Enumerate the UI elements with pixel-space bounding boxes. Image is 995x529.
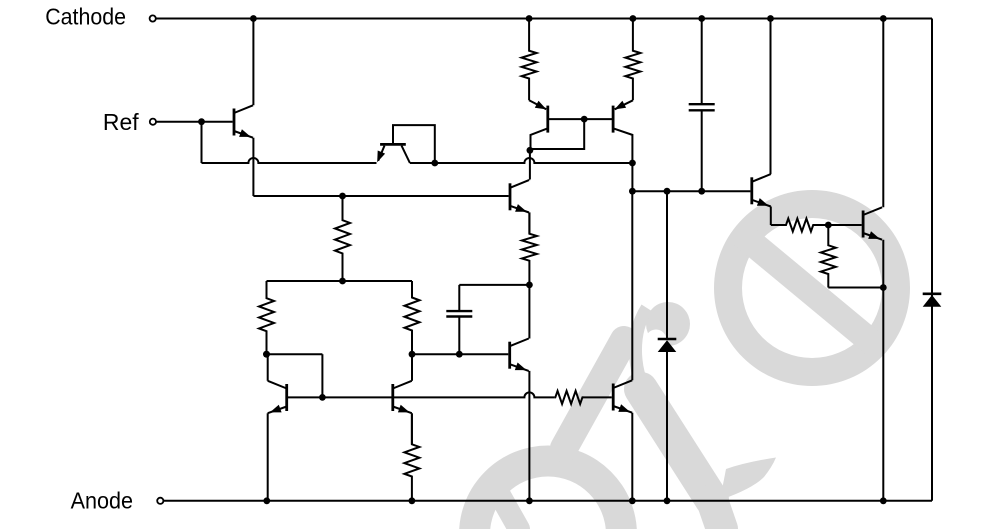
transistor Q1 collector lead — [234, 105, 253, 113]
transistor Q7 emitter arrow — [270, 405, 282, 413]
transistor Q3 collector lead — [531, 128, 548, 150]
resistor R10 — [771, 219, 829, 232]
transistor Q3 emitter arrow — [535, 101, 547, 110]
wire Q7 collector up — [267, 354, 269, 381]
wire Q9 collector up — [631, 191, 633, 380]
transistor Q3 emitter lead — [529, 100, 546, 109]
node top rail x=770.5 — [767, 15, 774, 22]
wire Q10 collector up — [770, 19, 772, 175]
wire Q7 emitter down — [267, 413, 269, 501]
node R2 bottom — [263, 351, 270, 358]
watermark accent stroke — [564, 340, 624, 448]
diode D2 triangle — [923, 295, 942, 307]
wire A right segment — [410, 158, 633, 163]
transistor Q5 bar — [509, 183, 512, 210]
capacitor C1 bottom plate — [689, 109, 715, 111]
node top rail x=529.1 — [526, 15, 533, 22]
node wire F tie — [319, 394, 326, 401]
node top rail x=701.7 — [698, 15, 705, 22]
diode D1 triangle — [658, 340, 677, 352]
resistor R3 — [405, 281, 420, 354]
node Q7 emitter at bottom rail — [263, 497, 270, 504]
capacitor C2 bottom plate — [446, 315, 472, 317]
watermark letter r hook blob — [646, 302, 690, 346]
node capacitor C1 bottom — [698, 188, 705, 195]
wire R10 node to Q11 base — [828, 224, 861, 226]
capacitor C2 bottom stub — [458, 317, 460, 355]
transistor Q2 collector lead — [402, 146, 410, 163]
svg-text:Ref: Ref — [103, 109, 139, 135]
wire Q1 collector to top rail — [252, 19, 254, 106]
transistor Q4 emitter arrow — [615, 101, 627, 110]
transistor Q8 emitter arrow — [398, 405, 410, 413]
wire Q5 collector up — [528, 178, 530, 181]
node top rail x=253.4 — [250, 15, 257, 22]
capacitor C2 top plate — [446, 310, 472, 312]
wire Ref node to Q1 base — [202, 121, 233, 123]
transistor Q6 bar — [508, 342, 511, 369]
node Q3 collector — [527, 147, 534, 154]
watermark ring slash — [740, 233, 875, 345]
transistor Q8 emitter lead — [393, 407, 412, 414]
diode D1 cathode bar — [658, 338, 677, 341]
wire Q8 emitter down — [411, 413, 413, 444]
transistor Q8 bar — [391, 384, 394, 411]
node D1 at bottom rail — [664, 497, 671, 504]
node R10 R11 tie — [825, 222, 832, 229]
wire R8 to Q9 base — [582, 396, 611, 398]
transistor Q6 collector lead — [510, 339, 529, 347]
watermark letter r stem tail — [712, 500, 722, 529]
wire E mid segment — [412, 353, 508, 355]
node Q2 base-collector tie — [431, 160, 438, 167]
watermark letter r hook notch — [646, 330, 667, 351]
wire Q8 collector up — [411, 354, 413, 381]
svg-text:Cathode: Cathode — [45, 3, 126, 29]
node diode D1 top — [664, 188, 671, 195]
wire D1 branch lower — [666, 352, 668, 501]
node Q9 emitter at bottom rail — [629, 497, 636, 504]
wire E left segment — [267, 353, 323, 355]
node wire C R1 top — [339, 193, 346, 200]
wire mirror collector down with hop — [529, 150, 531, 163]
capacitor C1 top plate — [689, 103, 715, 105]
wire Q2 base loop — [393, 125, 435, 163]
transistor Q9 collector lead — [613, 380, 632, 388]
transistor Q2 bar — [380, 143, 406, 146]
watermark letter r stem — [641, 389, 712, 500]
terminal Anode — [157, 498, 163, 504]
capacitor C1 bottom stub — [701, 110, 703, 191]
transistor Q6 emitter lead — [510, 364, 529, 371]
transistor Q8 collector lead — [393, 381, 412, 389]
capacitor C2 top stub — [458, 285, 460, 311]
node Q11 emitter tie — [880, 284, 887, 291]
watermark letter o ring — [459, 446, 637, 529]
wire Q10 emitter down — [770, 207, 772, 226]
terminal Cathode — [150, 15, 156, 21]
transistor Q9 bar — [612, 384, 615, 411]
node mirror base tie — [581, 116, 588, 123]
transistor Q5 emitter arrow — [515, 204, 527, 212]
node R3 bottom — [409, 351, 416, 358]
wire Q5 emitter down — [528, 213, 530, 234]
node Ref junction — [198, 118, 205, 125]
watermark letter r hook tail — [635, 308, 648, 396]
wire Q3 base tie — [548, 118, 612, 120]
wire F left — [287, 396, 393, 398]
transistor Q7 emitter lead — [268, 407, 287, 414]
transistor Q2 emitter arrow — [377, 151, 385, 163]
wire R11 jog — [828, 287, 883, 289]
transistor Q4 emitter lead — [615, 100, 633, 109]
wire Ref to node — [156, 121, 202, 123]
wire bottom rail — [164, 500, 933, 502]
wire D — [267, 280, 413, 282]
transistor Q11 bar — [862, 211, 865, 238]
wire mirror base drop — [531, 119, 585, 149]
transistor Q9 emitter arrow — [618, 404, 630, 412]
watermark stroke into o — [497, 490, 519, 529]
resistor R9 — [404, 414, 419, 501]
capacitor C1 top stub — [701, 19, 703, 105]
wire F right — [393, 392, 555, 397]
watermark slashed ring outer — [714, 190, 910, 386]
transistor Q5 collector lead — [510, 180, 529, 188]
wire A left segment — [202, 158, 377, 163]
node Q11 emitter at bottom rail — [880, 497, 887, 504]
wire E left drop to base — [321, 354, 323, 397]
wire Q1 emitter down — [252, 138, 254, 196]
svg-text:Anode: Anode — [71, 487, 133, 513]
wire Ref node down — [201, 122, 203, 163]
transistor Q7 collector lead — [268, 381, 287, 389]
transistor Q7 bar — [285, 384, 288, 411]
wire Q11 emitter down — [882, 240, 884, 501]
node capacitor C2 bottom tie — [456, 351, 463, 358]
transistor Q10 emitter arrow — [757, 198, 769, 206]
wire Q9 emitter down — [631, 413, 633, 501]
node R9 bottom — [409, 497, 416, 504]
wire top rail — [156, 18, 932, 20]
transistor Q4 collector lead — [613, 128, 632, 163]
resistor R2 — [259, 281, 274, 354]
wire Q6 collector up — [528, 285, 530, 339]
node wire A meets mirror collector — [629, 160, 636, 167]
wire C to Q5 base — [343, 195, 509, 197]
resistor R8 — [554, 391, 583, 404]
wire mirror collector to Q5 — [529, 163, 531, 179]
wire Q6 emitter down with hop — [528, 371, 530, 501]
transistor Q4 bar — [612, 106, 615, 133]
transistor Q1 bar — [233, 109, 236, 136]
wire D1 branch upper — [666, 191, 668, 339]
transistor Q10 emitter lead — [752, 200, 771, 207]
wire A node down to wire B node — [631, 163, 633, 191]
wire Q11 collector up — [882, 19, 884, 208]
node R1 bottom — [339, 278, 346, 285]
wire C2 top to node — [459, 284, 529, 286]
transistor Q1 emitter arrow — [239, 129, 251, 137]
resistor R7 — [522, 212, 537, 285]
node Q7 collector — [263, 351, 270, 358]
transistor Q2 emitter lead — [378, 146, 384, 161]
terminal Ref — [150, 119, 156, 125]
transistor Q5 emitter lead — [510, 206, 529, 213]
wire Q1 emitter corner to wire C — [253, 195, 342, 197]
transistor Q10 bar — [750, 177, 753, 204]
transistor Q3 bar — [546, 106, 549, 133]
transistor Q11 emitter lead — [863, 233, 882, 240]
resistor R6 — [625, 19, 640, 101]
transistor Q9 emitter lead — [613, 406, 632, 413]
node Q6 emitter at bottom rail — [526, 497, 533, 504]
watermark letter r flare — [720, 458, 776, 501]
node top rail x=883.3 — [880, 15, 887, 22]
transistor Q10 collector lead — [752, 174, 771, 182]
transistor Q6 emitter arrow — [515, 363, 527, 371]
transistor Q11 emitter arrow — [868, 231, 880, 239]
node R4 bottom C2 tie — [526, 282, 533, 289]
node wire B left — [629, 188, 636, 195]
diode D2 cathode bar — [923, 292, 942, 295]
transistor Q1 emitter lead — [234, 131, 253, 138]
resistor R1 — [335, 196, 350, 281]
transistor Q11 collector lead — [863, 207, 882, 215]
wire right edge — [931, 19, 933, 501]
node top rail x=632.9 — [630, 15, 637, 22]
resistor R5 — [522, 19, 537, 101]
wire B — [632, 190, 750, 192]
resistor R11 — [821, 225, 836, 288]
